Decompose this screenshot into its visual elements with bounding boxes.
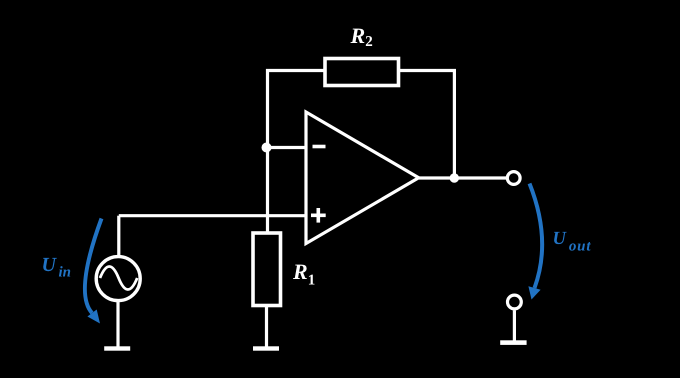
wire feedback top left xyxy=(268,71,326,149)
node inverting input junction xyxy=(262,143,272,153)
node output junction xyxy=(450,173,459,182)
resistor R2 xyxy=(325,59,399,86)
op-amp inverting input marker - xyxy=(313,145,326,149)
wire R1 to ground xyxy=(265,306,268,347)
wire source to ground xyxy=(116,301,119,347)
wire source top xyxy=(117,216,120,256)
AC source sine xyxy=(100,267,137,290)
ground middle xyxy=(253,346,279,350)
svg-text:R1: R1 xyxy=(292,259,315,288)
op-amp U1 xyxy=(306,112,419,244)
svg-text:Uin: Uin xyxy=(42,254,71,280)
U_in arrow xyxy=(85,219,102,314)
wire terminal to ground xyxy=(513,311,516,341)
wire output xyxy=(419,176,507,179)
ground left xyxy=(104,346,130,350)
output terminal xyxy=(507,172,520,185)
wire feedback top right xyxy=(399,71,455,179)
U_out arrow xyxy=(530,184,543,289)
wire node to R1 xyxy=(266,148,269,234)
ground right xyxy=(500,340,526,345)
resistor R1 xyxy=(253,233,281,306)
wire non-inverting input xyxy=(119,214,306,217)
svg-text:R2: R2 xyxy=(350,23,373,50)
terminal lower xyxy=(508,295,522,309)
svg-text:Uout: Uout xyxy=(553,229,592,255)
wire inverting input xyxy=(266,146,306,149)
op-amp non-inverting input marker + xyxy=(311,208,326,223)
AC source V1 xyxy=(96,257,140,301)
